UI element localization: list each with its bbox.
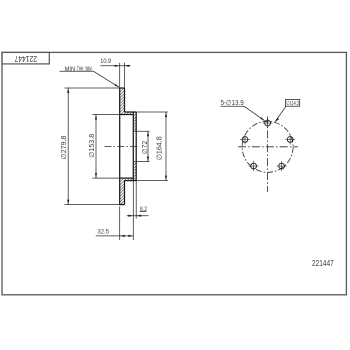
hat wall outer top — [125, 111, 137, 113]
title box top-left — [2, 52, 49, 64]
5-dia13.9 leader arrow — [260, 117, 264, 120]
dia 164.8 dim line — [165, 112, 167, 181]
dia 279.8 ext top — [65, 87, 120, 89]
horizontal centerline — [238, 146, 298, 148]
dia 164.8 arrow top — [165, 112, 167, 117]
10.9 arrow right — [125, 65, 130, 67]
10.9 ext right — [124, 63, 126, 88]
5-dia13.9 underline — [221, 105, 245, 107]
5-dia13.9 leader — [244, 106, 265, 121]
8.2 ext right — [135, 181, 137, 219]
svg-text:∅114.3: ∅114.3 — [286, 101, 299, 107]
dia 153.8 dim line — [95, 115, 97, 179]
svg-text:∅72: ∅72 — [142, 141, 149, 155]
hatch fill: hat plate bottom — [133, 162, 136, 181]
min thk underline — [60, 70, 94, 72]
8.2 arrow left — [128, 215, 133, 217]
32.5 ext left — [119, 207, 121, 241]
svg-text:9MM: 9MM — [85, 66, 91, 73]
dia 72 ext top — [133, 130, 149, 132]
dia 72 ext bottom — [133, 161, 149, 163]
svg-text:32.5: 32.5 — [97, 229, 109, 236]
dia 279.8 ext bottom — [65, 204, 120, 206]
hatch fill: hat wall bottom — [120, 178, 136, 181]
hole top — [265, 120, 271, 126]
32.5 arrow right — [128, 235, 133, 237]
8.2 dim line — [127, 215, 149, 217]
hole lower-left cross — [249, 165, 259, 167]
min thk leader — [94, 71, 120, 87]
dia 279.8 dim line — [67, 88, 69, 205]
vertical centerline — [267, 117, 269, 193]
svg-text:∅164.8: ∅164.8 — [157, 136, 164, 160]
svg-text:8.2: 8.2 — [140, 206, 148, 213]
hat wall outer bottom — [125, 180, 137, 182]
32.5 dim line — [96, 235, 134, 237]
hatch fill: hat wall top — [120, 112, 136, 115]
axis centerline — [105, 145, 139, 147]
hole upper-left — [242, 137, 248, 143]
hole upper-right — [287, 137, 293, 143]
dia 72 dim line — [147, 131, 149, 161]
hat plate inner face — [132, 112, 134, 181]
ring bottom face — [119, 204, 124, 206]
min thk leader arrow — [115, 84, 120, 87]
dia 153.8 ext bottom — [92, 177, 119, 179]
dia 279.8 arrow top — [67, 88, 69, 93]
svg-text:MIN: MIN — [65, 66, 76, 73]
hat plate outer face — [135, 112, 137, 181]
dia 72 arrow bottom — [147, 157, 149, 162]
10.9 arrow left — [115, 65, 120, 67]
hole top cross — [263, 122, 273, 124]
dia 153.8 ext top — [92, 114, 119, 116]
ring top face — [119, 87, 124, 89]
hat wall inner bottom — [120, 177, 134, 179]
8.2 underline — [140, 210, 147, 212]
ring right face bottom — [124, 181, 126, 205]
hatch fill: friction ring top — [120, 88, 125, 112]
8.2 arrow right — [136, 215, 141, 217]
dia 153.8 arrow top — [95, 115, 97, 120]
svg-text:∅153.8: ∅153.8 — [89, 134, 96, 158]
hatch fill: hat plate top — [133, 112, 136, 131]
dia114.3 leader — [275, 106, 286, 122]
dia 153.8 arrow bottom — [95, 173, 97, 178]
bolt holes — [242, 120, 293, 169]
dia 164.8 arrow bottom — [165, 176, 167, 181]
hole upper-right cross — [285, 138, 295, 140]
hole lower-left — [251, 163, 257, 169]
dia 114.3 boxed label — [286, 99, 300, 106]
svg-text:221447: 221447 — [14, 54, 37, 63]
8.2 ext left — [132, 181, 134, 240]
svg-text:10.9: 10.9 — [100, 58, 111, 65]
hole upper-left cross — [240, 138, 250, 140]
ring right face top — [124, 88, 126, 112]
disc left face — [119, 88, 121, 205]
svg-text:THK: THK — [77, 66, 84, 73]
dia114.3 leader arrow — [275, 118, 279, 122]
10.9 ext left — [119, 63, 121, 88]
border frame — [2, 52, 346, 294]
dia 279.8 arrow bottom — [67, 200, 69, 205]
hole lower-right cross — [277, 165, 287, 167]
bolt circle (dash-dot) — [242, 121, 293, 172]
dia 72 arrow top — [147, 131, 149, 136]
32.5 arrow left — [120, 235, 125, 237]
arrowheads — [67, 65, 167, 237]
dia 164.8 ext top — [136, 111, 168, 113]
10.9 dim line — [100, 65, 130, 67]
hatch fill: friction ring bottom — [120, 180, 125, 204]
dia 164.8 ext bottom — [136, 180, 168, 182]
hat wall inner top — [120, 114, 134, 116]
hole lower-right — [279, 163, 285, 169]
svg-text:5-∅13.9: 5-∅13.9 — [221, 98, 244, 107]
svg-text:∅279.8: ∅279.8 — [61, 135, 68, 159]
thin lines: extension + dimension lines — [60, 63, 168, 240]
svg-text:221447: 221447 — [312, 259, 334, 268]
